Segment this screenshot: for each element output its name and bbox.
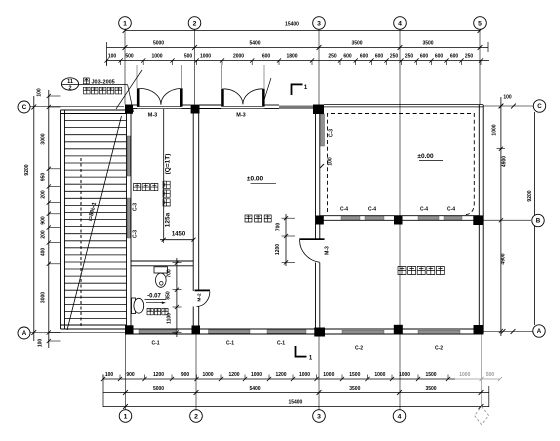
svg-text:2: 2 [68,85,71,91]
axis circle B right [532,214,544,226]
window C-3 in canopy west edge [321,114,325,146]
grid line axis 4 (vertical, full) [399,29,401,410]
axis circle A right [533,325,545,337]
svg-text:C-4: C-4 [340,207,348,213]
svg-text:1000: 1000 [299,372,310,378]
grid line axis A (horizontal, right stub) [484,331,533,333]
svg-text:1000: 1000 [151,54,162,60]
ramp edge dashed line [80,158,82,327]
bottom intermediate dimension line [103,392,489,394]
svg-text:2000: 2000 [233,54,244,60]
grid line axis 3 (vertical, above building) [318,29,320,105]
top overall dim ticks [123,28,483,33]
bottom overall dim ticks [123,404,483,409]
svg-text:3: 3 [317,413,321,420]
axis circle 1 top [119,17,132,30]
svg-text:M-2: M-2 [197,293,203,302]
grid line axis C (horizontal, right stub) [484,105,534,107]
left overall dim ticks [31,105,36,335]
svg-text:600: 600 [450,54,459,60]
svg-text:2: 2 [193,20,197,27]
bottom detail dim ticks [101,375,450,382]
column axis5-B [473,215,483,225]
svg-text:3500: 3500 [425,386,436,392]
svg-text:600: 600 [360,54,369,60]
column axis3-B [316,216,324,225]
svg-text:M-3: M-3 [325,246,331,255]
svg-text:200: 200 [41,190,47,199]
top detail dim ticks [104,58,483,65]
svg-text:1: 1 [124,413,128,420]
svg-text:C: C [22,104,27,111]
north wall (axis C) segments [125,105,279,109]
svg-text:1000: 1000 [374,372,385,378]
svg-text:1100: 1100 [167,313,173,324]
toilet WC tank [154,267,168,273]
svg-text:950: 950 [41,173,47,182]
bottom dim right end connector [488,386,490,407]
column axis2-C [191,105,200,114]
svg-text:1000: 1000 [202,372,213,378]
svg-text:-0.07: -0.07 [147,294,161,300]
ramp treads [65,121,127,319]
svg-text:1000: 1000 [459,372,470,378]
svg-text:100: 100 [328,157,334,166]
callout text su J03-2005 [84,78,115,86]
svg-text:600: 600 [435,54,444,60]
axis circle 4 top [394,17,407,30]
door M-2 (toilet) [195,290,211,307]
svg-text:3500: 3500 [422,41,433,47]
section mark 1 top [292,84,308,96]
window C-1 no.1 [139,330,176,333]
north canopy slab edge (axis C, right part) [324,105,483,107]
column axis3-A [314,328,325,337]
svg-text:C-1: C-1 [151,341,159,347]
top overall dimension line 15400 [125,30,480,32]
svg-text:100: 100 [105,372,114,378]
top detail dimension line [107,60,490,62]
svg-text:A: A [537,328,542,335]
door M-3 no.1 threshold lines [137,107,182,109]
bottom detail dim ticks faded [480,377,503,381]
axis circle 5 top [474,17,487,30]
svg-text:1000: 1000 [492,124,498,135]
svg-text:4900: 4900 [501,253,507,264]
svg-text:100: 100 [37,88,43,97]
svg-text:600: 600 [375,54,384,60]
svg-text:200: 200 [41,230,47,239]
room label hoist room (3 CJK chars) [134,184,158,191]
ramp outer edge top [61,109,127,111]
svg-text:C-4: C-4 [447,207,455,213]
column axis5-A [474,325,484,334]
grid line axis 1 (vertical, above building) [124,29,126,105]
toilet WC flush hole [160,282,164,286]
axis circle 4 bottom [393,410,406,423]
svg-text:850: 850 [166,291,172,300]
top intermediate dim ticks [123,45,483,50]
svg-text:3500: 3500 [351,41,362,47]
svg-text:125a: 125a [165,212,172,227]
grid line axis 2 (vertical, above building) [194,29,196,105]
north wall thick gray segment [279,106,315,109]
svg-text:5400: 5400 [249,41,260,47]
svg-text:700: 700 [167,269,173,278]
toilet interior dimension line [173,258,182,337]
axis circle 2 bottom [190,410,203,423]
grid line axis 2 (vertical, below building) [195,334,197,410]
grid line axis C (horizontal, left stub) [30,106,124,108]
window C-4 no.1 [341,216,360,219]
svg-text:1000: 1000 [200,54,211,60]
svg-text:5000: 5000 [153,386,164,392]
svg-text:M-3: M-3 [236,113,245,119]
svg-text:100: 100 [38,339,44,348]
callout leader diagonal 2 [116,70,142,109]
svg-text:2: 2 [194,413,198,420]
toilet elevation -0.07 [145,294,167,300]
grid line axis 3 (vertical, below building) [318,337,320,411]
ramp outer edge bottom [61,324,127,326]
right detail dimension line [500,97,502,336]
svg-text:1200: 1200 [275,244,281,255]
toilet north wall [131,261,193,266]
svg-text:C-3: C-3 [133,203,139,211]
door M-3 no.2 threshold lines [221,107,264,109]
svg-text:100: 100 [503,95,512,101]
window C-4 no.2 [365,216,384,219]
svg-text:±0.00: ±0.00 [247,175,264,182]
south wall (axis A) [125,329,483,334]
svg-text:3500: 3500 [349,386,360,392]
svg-text:5: 5 [478,20,482,27]
bottom detail dimension line faded right [455,378,500,380]
svg-text:700: 700 [276,223,282,232]
svg-text:250: 250 [465,54,474,60]
svg-text:9200: 9200 [527,190,533,201]
column axis4-A [394,325,403,334]
left overall dimension line [33,96,35,341]
axis circle A left [18,327,30,339]
column axis1-C [125,105,133,114]
svg-text:1000: 1000 [251,372,262,378]
svg-text:500: 500 [125,54,134,60]
axis circle C right [533,100,545,112]
svg-text:C-3: C-3 [329,129,335,137]
bottom overall dimension line [103,406,489,408]
column axis4-B [394,216,403,225]
column axis1-A [125,325,134,334]
room label LV distribution room (5 CJK chars) [398,267,444,275]
top intermediate dimension line [107,47,489,49]
window C-1 no.2 [209,330,251,333]
room label duty room (3 CJK chars) [245,215,271,222]
svg-text:4: 4 [398,20,402,27]
top detail dim labels [108,54,474,60]
top dim left end connector [106,42,108,66]
witness line door1 left jamb [136,65,138,88]
right dim ticks 100 top [499,104,516,109]
bottom detail dim labels faded [459,372,494,378]
svg-text:B: B [536,218,541,225]
axis circle 1 bottom [119,410,132,423]
svg-text:3000: 3000 [41,133,47,144]
door M-3 no.1 (double door, north wall) [137,88,183,106]
hall door dimension line [282,214,296,266]
svg-text:500: 500 [486,372,495,378]
svg-text:600: 600 [343,54,352,60]
grid line axis 5 (vertical, below building, fading) [481,334,483,406]
bottom detail dim labels [105,372,437,378]
window C-3 upper in west wall [127,136,130,176]
witness line door2 left jamb [221,65,223,88]
svg-text:1500: 1500 [425,372,436,378]
axis circle 2 top [188,17,201,30]
crane beam label 125a I-beam (Q=1T), rotated [163,154,172,228]
hall east wall (axis 3) [316,105,320,329]
witness line door1 right jamb [181,65,183,88]
svg-text:5400: 5400 [249,386,260,392]
svg-text:C-1: C-1 [226,341,234,347]
svg-text:1200: 1200 [153,372,164,378]
detail callout bubble circle 11/2 [61,78,78,92]
bottom detail dimension line [103,378,455,380]
left detail dimension line [48,90,50,348]
bottom intermediate dim ticks [123,390,483,395]
door M-3 no.3 (hall east wall) [299,238,324,262]
grid line axis 5 (vertical, above building) [479,29,481,105]
svg-text:C-2: C-2 [435,346,443,352]
svg-text:1200: 1200 [275,372,286,378]
bottom dim left end connector [102,375,104,408]
svg-text:±0.00: ±0.00 [417,153,434,160]
svg-text:600: 600 [420,54,429,60]
canopy dashed outline (roof over platform) [328,114,475,215]
svg-text:4900: 4900 [502,156,508,167]
svg-text:1500: 1500 [349,372,360,378]
svg-text:100: 100 [108,54,117,60]
svg-text:A: A [22,330,27,337]
window C-1 no.3 [267,330,306,333]
svg-text:11: 11 [67,79,73,85]
top dim right end connector [487,42,489,52]
dim tick at canopy west [320,164,324,168]
svg-text:C-1: C-1 [277,341,285,347]
wash basin against west wall [132,298,144,314]
svg-text:4: 4 [398,413,402,420]
svg-text:400: 400 [41,248,47,257]
svg-text:900: 900 [181,372,190,378]
window C-2 no.1 [342,330,384,333]
section mark 1 bottom [296,346,313,362]
svg-text:900: 900 [41,216,47,225]
door M-3 no.2 (double door, north wall) [221,89,264,107]
svg-text:1200: 1200 [228,372,239,378]
svg-text:5000: 5000 [153,41,164,47]
crane beam line (hoist room) [163,109,165,238]
svg-text:15400: 15400 [288,400,302,406]
svg-text:900: 900 [126,372,135,378]
window C-2 no.2 [418,330,460,333]
svg-text:250: 250 [328,54,337,60]
column axis2-A [192,326,201,334]
witness line door2 right jamb [263,65,265,88]
svg-text:1: 1 [123,20,127,27]
svg-text:1800: 1800 [286,54,297,60]
svg-text:1000: 1000 [399,372,410,378]
B axis wall of distribution room [320,216,480,221]
svg-text:9200: 9200 [24,164,30,175]
canopy elevation +-0.00 [417,153,443,161]
right overall dimension line [534,112,536,325]
grid line axis 1 (vertical, below building) [125,334,127,410]
svg-text:3: 3 [317,20,321,27]
right detail dim ticks [497,104,506,333]
window C-3 lower in west wall [127,198,130,238]
column axis3-C [313,105,324,115]
callout text (ramp construction, 5 CJK chars) [84,87,122,94]
svg-text:250: 250 [390,54,399,60]
left detail dim labels [37,88,47,347]
svg-text:15400: 15400 [285,22,299,28]
svg-text:J03-2005: J03-2005 [92,80,115,86]
callout horizontal line [61,84,127,86]
east wall (axis 5) [479,105,483,333]
svg-text:C: C [537,103,542,110]
svg-text:500: 500 [184,54,193,60]
ramp slope diagonal [67,116,122,330]
svg-text:1450: 1450 [172,232,186,238]
room label toilet (3 CJK chars) [147,309,168,315]
axis circle 3 top [313,17,326,30]
toilet slope arrow [146,302,166,304]
svg-text:C-2: C-2 [355,346,363,352]
grid line axis A (horizontal, left stub) [30,332,125,334]
grid line axis B (horizontal, right stub) [484,219,532,221]
svg-text:M-3: M-3 [148,113,157,119]
ramp outer edge left [60,110,62,329]
toilet WC bowl [156,273,167,287]
window C-4 no.4 [444,216,462,219]
right dim ticks at A [501,329,516,334]
axis marker 5 bottom (faded dashed diamond) [475,407,489,425]
svg-text:250: 250 [405,54,414,60]
left detail dim ticks [47,94,61,343]
axis circle 3 bottom [313,410,326,423]
leader diagonal near door 2 [263,78,271,103]
svg-text:C-4: C-4 [368,207,376,213]
svg-text:1000: 1000 [323,372,334,378]
window C-4 no.3 [418,216,439,219]
callout leader diagonal 1 [128,85,134,112]
dim 1450 under beam [160,232,196,244]
svg-text:600: 600 [262,54,271,60]
svg-text:(Q=1T): (Q=1T) [165,154,172,175]
svg-text:C-4: C-4 [420,207,428,213]
axis circle C left [18,101,30,113]
west wall (axis 1) [127,105,132,333]
hall elevation +-0.00 [247,175,276,183]
svg-text:3000: 3000 [41,292,47,303]
interior wall (axis 2) [193,105,199,333]
svg-text:C-3: C-3 [133,230,139,238]
